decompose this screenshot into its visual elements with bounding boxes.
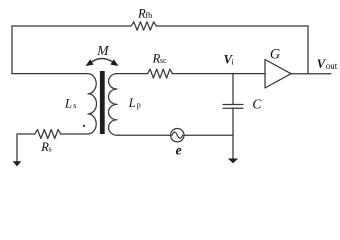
svg-text:L: L — [128, 96, 136, 110]
inductor Lp (right coil) — [108, 74, 117, 136]
svg-text:C: C — [252, 97, 262, 112]
wire corner down to arrow — [16, 134, 18, 161]
source e circle — [171, 129, 184, 142]
M arrowhead left — [86, 59, 94, 66]
svg-text:out: out — [326, 61, 338, 71]
svg-text:M: M — [96, 43, 109, 58]
wire Ls bottom to Rs — [61, 133, 88, 135]
svg-text:sc: sc — [160, 56, 167, 65]
wire feedback vertical — [307, 26, 309, 74]
wire left vertical — [11, 26, 13, 74]
wire left row to transformer — [12, 73, 88, 75]
svg-text:s: s — [73, 101, 76, 110]
wire Rs to corner — [17, 133, 35, 135]
ground arrow left — [13, 161, 22, 166]
svg-text:p: p — [137, 101, 141, 110]
wire source to capacitor branch — [184, 134, 233, 136]
resistor Rs — [35, 130, 61, 139]
M arrowhead right — [110, 59, 118, 66]
resistor Rfb — [131, 22, 156, 30]
wire capacitor down to ground arrow — [232, 108, 234, 158]
wire Lp top to Rsc — [117, 73, 148, 75]
wire Lp bottom to source — [117, 134, 171, 136]
wire Rsc to node Vi and amp input — [173, 73, 266, 75]
svg-text:s: s — [49, 145, 52, 154]
polarity dot — [83, 125, 85, 127]
resistor Rsc — [148, 69, 173, 78]
source e sine — [172, 132, 183, 138]
svg-text:e: e — [176, 143, 182, 158]
op-amp G triangle — [265, 60, 291, 89]
svg-text:fb: fb — [145, 10, 152, 20]
ground arrow middle — [228, 159, 238, 164]
svg-text:L: L — [64, 96, 72, 110]
wire node Vi down to capacitor — [232, 74, 234, 105]
mutual inductance M arc — [91, 59, 113, 63]
inductor Ls (left coil) — [88, 74, 97, 134]
wire amp output — [291, 73, 331, 75]
capacitor C plates — [223, 105, 243, 109]
wire Rfb to right vertical — [156, 25, 308, 27]
transformer core bar — [100, 71, 105, 134]
svg-text:G: G — [270, 47, 280, 63]
wire top-left lead to Rfb — [12, 25, 131, 27]
